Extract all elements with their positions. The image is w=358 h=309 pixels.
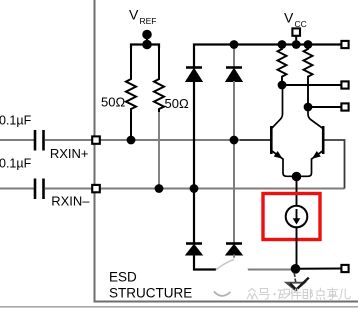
node D2/VCC rail junction xyxy=(230,40,239,49)
diode D4 (ground to RXIN+) xyxy=(226,244,242,256)
node R1/RXIN+ junction xyxy=(127,136,136,145)
wire D3 to bottom rail xyxy=(194,255,240,270)
wire D1 column to RXIN- xyxy=(193,81,195,189)
current source I1 xyxy=(286,206,308,228)
resistor R3 (VCC load, left) xyxy=(278,45,287,86)
wire output A to terminal xyxy=(282,84,341,86)
capacitor C1 plates xyxy=(34,130,37,151)
svg-text:V: V xyxy=(129,7,139,23)
wire VCC top rail xyxy=(194,45,345,68)
svg-text:STRUCTURE: STRUCTURE xyxy=(109,286,192,301)
wire C2 to RXIN- terminal xyxy=(45,188,93,190)
ground symbol triangle xyxy=(286,283,304,291)
terminal VCC rail right xyxy=(341,41,348,48)
wire output B to terminal xyxy=(308,106,341,108)
terminal VCC xyxy=(292,28,300,35)
wire Q2 base loop xyxy=(324,140,345,189)
image bottom border xyxy=(0,306,358,308)
watermark white blob xyxy=(216,258,249,291)
wire RXIN+ to Q1 base xyxy=(240,139,270,141)
wire current source to ground rail xyxy=(296,227,298,269)
terminal output A xyxy=(341,81,348,88)
watermark faint remnant stroke xyxy=(216,260,234,271)
transistor Q1 (left of diff pair) xyxy=(271,85,297,176)
wire R2 lead to RXIN- xyxy=(158,112,160,189)
wire bottom ground rail xyxy=(240,269,296,271)
terminal output B xyxy=(341,103,348,110)
wire D2 column top (gray) xyxy=(233,45,235,68)
wire R4 down to collector node xyxy=(307,85,309,107)
ground symbol stem (broken by watermark) xyxy=(294,273,295,278)
node ground rail junction xyxy=(291,264,301,274)
svg-text:V: V xyxy=(284,10,294,26)
wire RXIN- internal xyxy=(100,188,345,190)
wire RXIN+ column to D4 xyxy=(233,140,235,244)
svg-text:0.1µF: 0.1µF xyxy=(0,157,32,171)
svg-text:50Ω: 50Ω xyxy=(165,96,189,111)
terminal ground right xyxy=(341,265,348,272)
resistor R2 50ohm (VREF to RXIN-) xyxy=(154,45,164,113)
wire D4 to bottom rail xyxy=(233,255,235,270)
wire VREF stem xyxy=(146,35,148,45)
wire RXIN+ external left xyxy=(0,139,34,141)
VREF terminal dot xyxy=(142,30,152,40)
svg-text:RXIN–: RXIN– xyxy=(51,194,90,209)
wire RXIN+ internal xyxy=(100,139,240,141)
wire RXIN- column to D3 xyxy=(193,189,195,244)
resistor R4 (VCC load, right) xyxy=(304,45,313,86)
wire ground rail to terminal xyxy=(296,268,342,270)
wire D2 column to RXIN+ xyxy=(233,81,235,140)
transistor Q2 (right of diff pair) xyxy=(296,107,323,176)
capacitor C2 plates xyxy=(34,179,37,200)
node VREF junction dot xyxy=(142,40,152,50)
IC boundary box (ESD structure outline) xyxy=(95,0,358,302)
svg-text:REF: REF xyxy=(140,16,157,26)
diode D2 (RXIN+ to VCC) xyxy=(226,68,242,82)
node rail dots xyxy=(278,40,287,49)
node R3/collector junction xyxy=(278,81,287,90)
node D2-column/RXIN+ junction xyxy=(230,136,239,145)
wire VCC stem xyxy=(295,37,297,45)
node R4/collector junction xyxy=(304,103,313,112)
svg-text:ESD: ESD xyxy=(109,270,137,285)
wire VREF bracket xyxy=(131,45,159,49)
wire RXIN- external left xyxy=(0,188,34,190)
node D-column/RXIN- junction xyxy=(190,184,199,193)
watermark check mark xyxy=(290,278,309,290)
terminal RXIN- xyxy=(92,185,100,192)
terminal RXIN+ xyxy=(92,136,100,143)
svg-text:50Ω: 50Ω xyxy=(101,95,125,110)
svg-text:0.1µF: 0.1µF xyxy=(0,114,32,128)
resistor R1 50ohm (VREF to RXIN+) xyxy=(126,45,136,141)
highlight red box around current source xyxy=(263,194,320,240)
watermark smile arc xyxy=(214,292,231,296)
wire C1 to RXIN+ terminal xyxy=(45,139,93,141)
diode D1 (RXIN- to VCC) xyxy=(186,68,202,82)
svg-text:RXIN+: RXIN+ xyxy=(50,146,89,161)
node emitter junction xyxy=(292,172,302,182)
watermark text (pseudo CJK glyph strokes) xyxy=(247,288,350,300)
diode D3 (ground to RXIN-) xyxy=(186,244,202,256)
wire emitter to current source xyxy=(296,177,298,207)
node R2/RXIN- junction xyxy=(155,184,164,193)
